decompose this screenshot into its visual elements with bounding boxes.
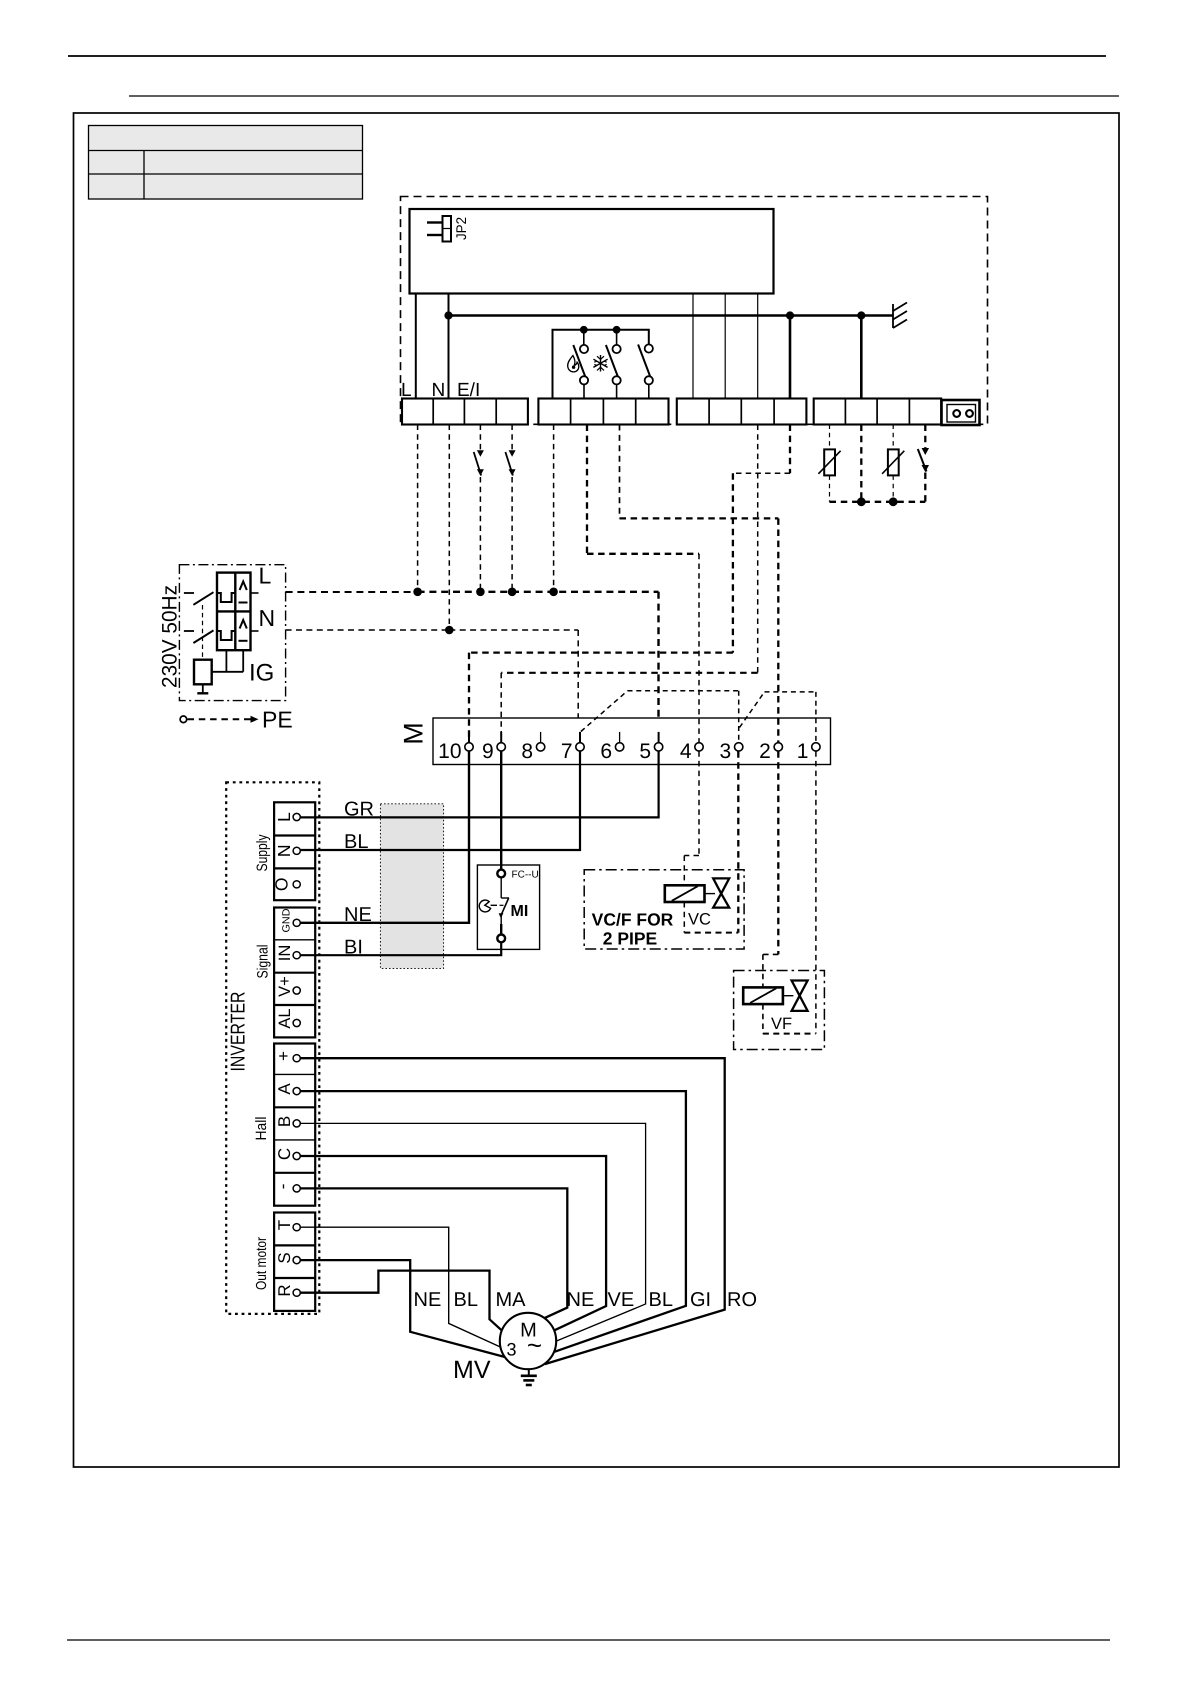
- wire hall B (BL): [300, 1123, 645, 1341]
- junction bus/strip3: [786, 311, 794, 319]
- svg-text:1: 1: [797, 740, 809, 763]
- bottom rule: [67, 1639, 1110, 1641]
- wire out T (BL): [300, 1227, 500, 1347]
- wire NE M10 to inverter GND: [301, 751, 470, 923]
- water probe thermistor: [818, 425, 840, 502]
- M terminal 1: [797, 740, 820, 763]
- M terminal 2: [759, 740, 782, 763]
- svg-text:6: 6: [600, 740, 612, 763]
- limit switch box FC-U: [477, 865, 539, 949]
- IG actuator: [194, 650, 243, 693]
- svg-text:IG: IG: [249, 660, 274, 687]
- junction L bus 3: [508, 588, 517, 597]
- svg-text:BL: BL: [454, 1289, 478, 1311]
- M terminal 5: [639, 732, 662, 763]
- wire M9 to FC-U: [500, 751, 502, 870]
- svg-text:VF: VF: [771, 1015, 792, 1033]
- bus drop to strip3 cell4: [789, 316, 792, 399]
- junction N/bus: [444, 311, 452, 319]
- wire hall A (GI): [300, 1091, 686, 1352]
- svg-text:5: 5: [639, 740, 651, 763]
- svg-text:4: 4: [680, 740, 692, 763]
- motor MV: [500, 1313, 556, 1369]
- wire hall - (NE): [300, 1188, 567, 1318]
- svg-text:NE: NE: [414, 1289, 442, 1311]
- riser strip1 L: [417, 425, 419, 592]
- svg-text:VE: VE: [608, 1289, 635, 1311]
- VF valve body: [783, 981, 808, 1011]
- junction sensor bus 2: [889, 497, 898, 506]
- wire BL M7 to inverter N: [301, 751, 581, 850]
- terminal strip X3: [677, 399, 807, 425]
- junction L bus 2: [476, 588, 485, 597]
- heat switch: [573, 330, 588, 399]
- junction sensor bus 1: [857, 497, 866, 506]
- svg-text:Supply: Supply: [254, 834, 271, 871]
- svg-text:INVERTER: INVERTER: [228, 992, 250, 1072]
- sensor common bus: [830, 501, 926, 503]
- svg-text:VC: VC: [688, 911, 711, 929]
- jumper link M7 to M3: [581, 691, 739, 743]
- svg-text:10: 10: [438, 740, 461, 763]
- riser strip1 cell3 with contact: [474, 425, 484, 592]
- grey highlight zone: [380, 804, 443, 969]
- M terminal 3: [720, 740, 743, 763]
- air probe thermistor: [882, 425, 904, 502]
- junction L bus 4: [549, 588, 558, 597]
- svg-text:+: +: [274, 1051, 293, 1061]
- wire strip3 cell4 to M10: [469, 425, 790, 743]
- svg-text:Hall: Hall: [253, 1117, 270, 1141]
- riser strip2 cell1: [553, 425, 555, 592]
- VC valve body: [705, 878, 730, 907]
- N bus: [286, 629, 450, 631]
- svg-text:BL: BL: [649, 1289, 673, 1311]
- svg-text:GI: GI: [690, 1289, 711, 1311]
- svg-text:L: L: [274, 812, 294, 822]
- float switch contact: [918, 425, 929, 502]
- inverter supply terminals: [272, 802, 316, 900]
- svg-text:~: ~: [527, 1330, 542, 1360]
- svg-text:AL: AL: [276, 1008, 294, 1028]
- svg-text:FC--U: FC--U: [512, 870, 539, 881]
- breaker IG: [217, 573, 251, 651]
- header rule top: [68, 55, 1106, 57]
- M terminal 9: [482, 732, 505, 763]
- svg-text:BL: BL: [344, 831, 368, 853]
- svg-text:BI: BI: [344, 937, 363, 959]
- svg-text:N: N: [274, 844, 294, 857]
- wire GR M5 to inverter L: [301, 751, 659, 817]
- svg-text:L: L: [259, 563, 272, 589]
- svg-text:A: A: [275, 1083, 294, 1095]
- wire M2 to VF coil: [763, 751, 816, 1033]
- revision table: [89, 126, 363, 200]
- junction L bus 1: [413, 588, 422, 597]
- svg-text:C: C: [275, 1148, 294, 1160]
- terminal strip X4: [814, 399, 942, 425]
- wire BI MI to inverter IN: [301, 942, 502, 955]
- wire N from board: [448, 294, 450, 399]
- svg-text:Signal: Signal: [255, 945, 272, 979]
- M terminal stub 8: [540, 732, 542, 743]
- junction sw2: [613, 326, 621, 334]
- M terminal 6: [600, 740, 623, 763]
- inverter signal terminals: [274, 908, 315, 1038]
- svg-text:Out motor: Out motor: [254, 1237, 270, 1290]
- VF dash-dot box: [734, 971, 825, 1050]
- M terminal 8: [521, 740, 544, 763]
- svg-text:MV: MV: [453, 1356, 491, 1384]
- svg-text:2: 2: [759, 740, 771, 763]
- wire out R (MA): [300, 1271, 501, 1331]
- wire M1 to VF: [815, 751, 817, 1033]
- svg-text:T: T: [275, 1220, 294, 1230]
- svg-text:B: B: [275, 1116, 294, 1127]
- riser strip1 cell4 with contact: [505, 425, 515, 592]
- svg-text:M: M: [399, 722, 429, 745]
- chassis ground: [893, 303, 907, 329]
- svg-text:GND: GND: [281, 908, 293, 932]
- svg-text:O: O: [272, 877, 292, 891]
- M terminal 4: [680, 740, 703, 763]
- terminal block M: [433, 718, 831, 765]
- svg-text:2 PIPE: 2 PIPE: [603, 929, 657, 949]
- svg-text:NE: NE: [344, 904, 372, 926]
- connector plug: [942, 400, 980, 425]
- svg-text:S: S: [275, 1252, 294, 1263]
- svg-text:JP2: JP2: [453, 217, 469, 240]
- riser strip1 N: [448, 425, 450, 631]
- breaker blades: [193, 592, 213, 643]
- wire hall + (RO): [300, 1058, 724, 1364]
- flame icon: [568, 356, 579, 372]
- jumper JP2: [427, 216, 469, 242]
- inverter dotted enclosure: [226, 782, 319, 1314]
- M terminal 7: [561, 732, 584, 763]
- supply dash-dot box 230V: [179, 565, 285, 701]
- earth bus wire: [449, 314, 894, 317]
- M terminal stub 6: [619, 732, 621, 743]
- M terminal 10: [438, 732, 473, 763]
- svg-text:MA: MA: [496, 1289, 527, 1311]
- inverter out motor terminals: [274, 1213, 315, 1311]
- PE earth lead: [180, 716, 258, 723]
- wire hall C (VE): [300, 1156, 606, 1330]
- page border frame: [74, 113, 1120, 1467]
- svg-text:230V 50Hz: 230V 50Hz: [159, 585, 182, 688]
- junction N bus: [445, 626, 454, 635]
- svg-text:GR: GR: [344, 799, 374, 821]
- svg-text:9: 9: [482, 740, 494, 763]
- sensor common wire: [860, 425, 862, 502]
- junction bus/strip4: [857, 311, 865, 319]
- wire strip2 cell2 to M4: [587, 425, 699, 743]
- selector switch bus: [553, 330, 649, 399]
- junction sw1: [580, 326, 588, 334]
- VC/F dash-dot box: [584, 870, 744, 949]
- svg-text:PE: PE: [262, 707, 293, 733]
- terminal strip X1: [402, 399, 528, 425]
- title rule: [129, 95, 1119, 97]
- bus drop to strip4 cell2: [860, 316, 863, 399]
- cool switch: [606, 330, 621, 399]
- svg-text:3: 3: [506, 1340, 516, 1360]
- svg-text:VC/F FOR: VC/F FOR: [592, 910, 674, 930]
- wire M4 to VC coil: [684, 751, 738, 932]
- breaker mechanical tie: [202, 605, 204, 659]
- svg-text:V+: V+: [276, 976, 294, 997]
- svg-text:N: N: [259, 605, 276, 631]
- svg-text:RO: RO: [727, 1289, 757, 1311]
- svg-text:NE: NE: [567, 1289, 595, 1311]
- control board dashed enclosure: [401, 197, 988, 425]
- L bus drop to M5: [657, 592, 659, 743]
- svg-text:IN: IN: [276, 945, 294, 962]
- L bus: [286, 591, 418, 593]
- VF coil: [743, 987, 783, 1004]
- wire M3 to VC: [737, 751, 739, 932]
- breaker terminals: [184, 593, 259, 631]
- wire strip2 cell3 to M2: [620, 425, 779, 743]
- wire out S (NE): [300, 1260, 504, 1357]
- VC coil: [665, 885, 705, 902]
- N bus drop to M7: [577, 630, 579, 743]
- motor earth: [521, 1370, 537, 1386]
- control board PCB: [410, 209, 774, 294]
- manual actuator symbol: [479, 900, 490, 912]
- svg-text:MI: MI: [511, 903, 529, 920]
- inverter hall terminals: [273, 1044, 315, 1206]
- svg-text:8: 8: [521, 740, 533, 763]
- svg-text:R: R: [275, 1284, 294, 1296]
- snowflake icon: [593, 355, 607, 372]
- wire strip3 cell3 to M9: [501, 425, 758, 743]
- terminal strip X2: [538, 399, 668, 425]
- fan switch: [638, 344, 653, 398]
- wire L from board: [415, 294, 417, 399]
- board output wires to strip3: [692, 294, 694, 399]
- svg-text:7: 7: [561, 740, 573, 763]
- svg-text:3: 3: [720, 740, 732, 763]
- jumper link M3 to M1: [740, 692, 816, 743]
- svg-text:-: -: [273, 1184, 292, 1190]
